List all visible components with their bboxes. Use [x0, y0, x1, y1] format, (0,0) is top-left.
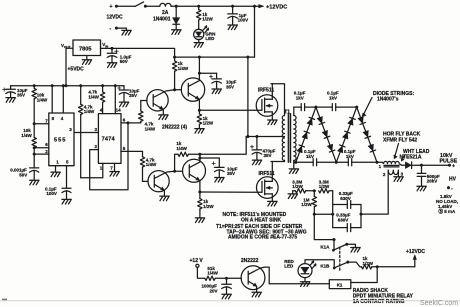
wire 555 pin8 riser	[51, 86, 53, 113]
node Q1 collector Q2 base	[173, 88, 176, 91]
resistor 1k 1/2W upper	[195, 110, 214, 133]
node rail-1N4001	[175, 5, 178, 8]
svg-text:35V: 35V	[17, 92, 25, 97]
transistor Q1 2N2222	[147, 90, 175, 120]
svg-text:1/4W: 1/4W	[178, 66, 189, 71]
label WHT LEAD NTE521A	[400, 149, 430, 161]
wire HV output	[422, 164, 456, 170]
wire 555 pin7	[34, 123, 49, 125]
wire 7474 pin6 out	[121, 122, 141, 124]
fuse 2A	[160, 3, 171, 16]
svg-text:+: +	[452, 164, 455, 170]
resistor 1k 1/2W relay	[362, 256, 415, 269]
svg-text:1/4W: 1/4W	[176, 146, 187, 151]
IC U3 7474	[95, 108, 126, 171]
svg-text:AMIDON E CORE #EA-77-375: AMIDON E CORE #EA-77-375	[228, 235, 297, 241]
node pin6 junction	[33, 146, 36, 149]
diode string D falling	[357, 107, 377, 162]
wire +5V rail	[11, 85, 124, 87]
svg-text:1/2W: 1/2W	[203, 121, 214, 126]
resistor 3.3M 1/2W first	[292, 179, 314, 193]
wire 1M to cap block	[314, 213, 332, 215]
ground 7474 pin7	[110, 163, 119, 176]
svg-text:1/2W: 1/2W	[202, 17, 213, 22]
svg-text:K1B: K1B	[320, 263, 330, 268]
node rail-down feed	[253, 5, 256, 8]
wire lower drain to T1	[271, 160, 285, 161]
node Q2 collector cap junction	[198, 72, 201, 75]
svg-text:35V: 35V	[129, 93, 137, 98]
svg-text:630V: 630V	[338, 217, 349, 222]
svg-text:1/4W: 1/4W	[146, 162, 157, 167]
svg-text:HV: HV	[449, 176, 457, 182]
node Vin cap junction	[111, 47, 114, 50]
label HOR FLY BACK XFMR FLY 542	[383, 132, 421, 159]
wire feedback loop Qbar to D	[90, 123, 128, 190]
wire bottom page rule	[0, 300, 460, 302]
capacitor 0.33uF 630V second	[333, 212, 361, 231]
label 10kV PULSE	[440, 153, 458, 165]
wire gate line lower	[200, 191, 254, 193]
svg-text:14: 14	[116, 108, 122, 113]
wire 555 pin2	[34, 153, 49, 155]
svg-text:SeekIC.com: SeekIC.com	[420, 300, 458, 307]
svg-text:7474: 7474	[102, 137, 116, 143]
svg-text:1A CONTACT RATING: 1A CONTACT RATING	[353, 299, 405, 305]
label NOTE IRF511s mounted	[223, 212, 287, 223]
node y57-1k	[173, 56, 176, 59]
label RADIO SHACK relay	[353, 288, 414, 305]
wire 7805 Vout to +5V rail	[66, 48, 84, 85]
svg-text:K1: K1	[337, 283, 343, 288]
transistor Q5 2N2222	[241, 258, 269, 297]
diode string A rising	[296, 107, 316, 162]
svg-text:35V: 35V	[264, 153, 272, 158]
capacitor 10uF 35V upper	[199, 73, 236, 93]
wire fuse to diode node	[171, 5, 176, 7]
resistor 10k 1/4W upper	[32, 86, 48, 124]
wire rail segment	[199, 5, 233, 7]
wire 555 pin3 to 7474 pin3	[74, 132, 98, 134]
node +12V battery plus terminal	[110, 4, 118, 10]
wire relay dashed link	[339, 247, 341, 272]
wire to Q2 base	[175, 89, 182, 91]
relay coil K1	[329, 280, 351, 289]
capacitor 1uF 100V	[228, 6, 248, 29]
node rail pin14	[114, 84, 117, 87]
label output voltages	[436, 194, 458, 215]
svg-text:1/4W: 1/4W	[21, 133, 32, 138]
wire 7805 Vin	[101, 47, 113, 49]
svg-text:2N2222: 2N2222	[241, 258, 259, 264]
node rail 4.7kA	[79, 84, 82, 87]
wire 1M node to K1A	[314, 214, 334, 249]
node centre tap feed	[247, 135, 250, 138]
node +12VDC arrow	[259, 4, 288, 10]
capacitor 1000uF 20V	[202, 278, 232, 299]
wire +12V feed down from rail	[254, 6, 256, 57]
svg-text:1/4W: 1/4W	[37, 97, 48, 102]
resistor 1k 1/2W for green LED	[197, 6, 214, 21]
IC U2 555	[45, 113, 74, 166]
node 1M bottom	[313, 213, 316, 216]
capacitor 0.1uF 100V pin5	[45, 166, 71, 204]
switch K1A	[320, 243, 360, 252]
node lower cap junction	[199, 157, 202, 160]
svg-text:1/2W: 1/2W	[292, 184, 303, 189]
wire 555 pin6	[34, 147, 49, 149]
node rail-1uF	[231, 5, 234, 8]
regulator U1 7805	[61, 40, 109, 56]
svg-text:2A: 2A	[162, 10, 169, 16]
svg-text:1/4W: 1/4W	[88, 94, 99, 99]
node CW peak2	[355, 106, 358, 109]
svg-text:1/4W: 1/4W	[145, 126, 156, 131]
wire relay coil feed	[351, 267, 377, 283]
svg-text:1N4001: 1N4001	[153, 16, 171, 22]
switch S1 power	[135, 2, 147, 8]
svg-text:1/2W: 1/2W	[319, 184, 330, 189]
switch K1B	[320, 261, 361, 269]
resistor 1k 1/4W lower	[175, 141, 200, 171]
capacitor 470uF 35V	[250, 137, 275, 165]
node Q3 collector Q4 base	[173, 170, 176, 173]
inductor flyback secondary	[383, 170, 404, 181]
wire 555 pin4 riser	[62, 86, 64, 113]
node base junction	[225, 277, 228, 280]
svg-text:+12 V: +12 V	[190, 258, 204, 264]
wire CW top line right	[336, 106, 357, 108]
svg-text:K1A: K1A	[320, 244, 330, 249]
wire 7474 pin5 out	[121, 150, 143, 152]
node HV output junction	[420, 164, 423, 167]
capacitor 10uF 35V rail left	[3, 86, 28, 103]
capacitor 0.33uF 630V first	[333, 191, 361, 208]
node rail-1k	[197, 5, 200, 8]
label minus	[447, 186, 453, 192]
svg-text:1/4W: 1/4W	[207, 271, 218, 276]
node cap block right	[360, 213, 363, 216]
wire to Q1 base	[141, 100, 147, 102]
capacitor 0.001uF 50V	[10, 154, 39, 185]
node 470uF junction	[256, 135, 259, 138]
svg-text:35V: 35V	[226, 84, 234, 89]
label T1 winding note	[216, 224, 307, 241]
node Q4 collector resistor	[199, 153, 202, 156]
resistor 4.7k 1/4W Q1 base	[139, 101, 156, 132]
svg-text:+12VDC: +12VDC	[266, 4, 287, 10]
svg-text:1kV: 1kV	[296, 95, 304, 100]
node Q2 emitter	[198, 109, 201, 112]
capacitor 0.1uF 1kV bottom1	[304, 149, 317, 166]
wire to Q5 base	[227, 277, 242, 279]
node pin7 junction	[33, 122, 36, 125]
wire secondary bottom lead with ground	[289, 160, 298, 173]
resistor 1k 1/2W lower	[195, 192, 214, 223]
svg-text:+12VDC: +12VDC	[406, 249, 425, 255]
label DIODE STRINGS 1N4007	[362, 91, 414, 117]
svg-text:100V: 100V	[238, 18, 249, 23]
svg-text:100V: 100V	[46, 191, 57, 196]
node rail 7805 join	[65, 84, 68, 87]
resistor 3.3M 1/2W second	[319, 179, 333, 193]
transistor Q4 2N2222	[183, 154, 206, 192]
svg-text:20kV: 20kV	[427, 179, 438, 184]
svg-text:ON A HEAT SINK: ON A HEAT SINK	[241, 217, 281, 223]
wire rail segment	[176, 5, 199, 7]
ground 7805	[82, 56, 91, 65]
node pin6 feedback	[127, 122, 130, 125]
node CW foot2	[335, 161, 338, 164]
wire +12VDC arrow relay	[406, 249, 425, 267]
resistor 4.7k 1/4W pullup A	[79, 86, 95, 178]
transformer T1	[282, 110, 296, 163]
svg-text:35V: 35V	[227, 171, 235, 176]
svg-text:1N4007's: 1N4007's	[377, 97, 399, 103]
wire lower 1k feed corner	[200, 137, 246, 155]
wire loop to 7474 bottom pin1	[81, 163, 103, 177]
wire rail to arrow	[255, 5, 260, 7]
svg-text:LED: LED	[205, 36, 215, 41]
node Q4 emitter	[199, 191, 202, 194]
capacitor 10uF 35V rail right	[118, 86, 140, 107]
resistor 1k 1/4W upper	[172, 57, 188, 90]
wire CW top line mid	[305, 106, 333, 108]
resistor 1M 1/2W	[301, 191, 316, 214]
diode D2 NTE521A	[402, 162, 422, 169]
capacitor 500pF 20kV	[417, 165, 440, 191]
capacitor 0.1uF 1kV top1	[294, 91, 306, 111]
capacitor 10uF 35V lower	[200, 158, 238, 182]
svg-text:1/2W: 1/2W	[203, 204, 214, 209]
wire secondary top lead	[293, 107, 295, 115]
LED red RED	[284, 259, 316, 287]
node CW foot3	[376, 161, 379, 164]
node rail pin4	[62, 84, 65, 87]
wire Vin to corner	[112, 48, 175, 57]
mosfet U4 IRF511 upper	[254, 84, 278, 125]
node +12V terminal bottom	[190, 258, 204, 268]
svg-text:Ⓢ 5 mA: Ⓢ 5 mA	[439, 208, 457, 215]
node cap block left	[331, 213, 334, 216]
wire cap block left vertical	[332, 191, 334, 228]
wire junction down	[33, 148, 35, 154]
resistor 4.7k 1/4W Q3 base	[140, 151, 157, 181]
node y57-T1 centre feed	[247, 56, 250, 59]
wire upper drain to T1	[271, 84, 285, 116]
svg-text:50V: 50V	[19, 172, 27, 177]
svg-text:1/2W: 1/2W	[363, 261, 374, 266]
svg-text:50V: 50V	[120, 59, 128, 64]
mosfet U5 IRF511 lower	[254, 162, 278, 207]
transistor Q2 2N2222	[181, 57, 204, 110]
wire centre tap horizontal	[246, 136, 284, 138]
node relay feed	[376, 265, 379, 268]
capacitor 0.1uF 1kV bottom2	[344, 149, 356, 166]
node rail-10k	[33, 84, 36, 87]
wire Q5 collector to relay	[269, 283, 329, 285]
wire flyback secondary return	[361, 170, 388, 214]
node minus terminal with ground	[110, 26, 132, 35]
wire cap block right vertical	[360, 205, 362, 228]
svg-text:1kV: 1kV	[346, 154, 354, 159]
svg-text:PULSE: PULSE	[440, 158, 458, 164]
svg-text:7805: 7805	[79, 47, 91, 53]
wire plus terminal to switch	[117, 5, 135, 7]
diode string B falling	[316, 107, 336, 162]
svg-text:630V: 630V	[340, 196, 351, 201]
ground 555 pin1	[51, 166, 60, 177]
wire LED to K1B	[305, 260, 334, 267]
wire 7474 pin14 riser	[114, 86, 116, 114]
inductor flyback primary	[377, 161, 402, 169]
wire CW bottom line	[294, 161, 377, 163]
svg-text:LED: LED	[284, 264, 294, 269]
diode D1 1N4001	[153, 6, 181, 34]
ground 3.3M divider left	[288, 191, 297, 199]
svg-text:555: 555	[54, 138, 66, 144]
svg-text:12VDC: 12VDC	[107, 15, 124, 21]
LED green GRN	[194, 20, 216, 47]
diode string C rising	[336, 107, 356, 162]
wire gate line upper	[199, 109, 254, 111]
node y57-Q2 collector	[198, 56, 201, 59]
wire switch to fuse	[146, 5, 160, 7]
node CW peak1	[315, 106, 318, 109]
svg-text:1kV: 1kV	[306, 154, 314, 159]
node rail 4.7kB	[101, 84, 104, 87]
wire +12V distribution line y57	[175, 56, 255, 58]
svg-text:XFMR FLY 542: XFMR FLY 542	[383, 137, 417, 143]
resistor 51k 1/4W	[197, 266, 226, 281]
wire T1 centre tap feed	[247, 57, 249, 136]
wire to Q4 base	[175, 170, 183, 172]
node divider mid	[313, 189, 316, 192]
svg-text:2N2222 (4): 2N2222 (4)	[162, 125, 187, 131]
resistor 4.7k 1/4W pullup B	[88, 86, 104, 114]
node rail pin8	[51, 84, 54, 87]
capacitor 0.1uF 1kV top2	[327, 91, 339, 111]
node page corner mark	[2, 299, 7, 301]
svg-text:+: +	[110, 4, 113, 10]
wire to Q3 base	[143, 180, 149, 182]
capacitor 1.0uF 50V	[107, 48, 131, 67]
node CW foot1	[294, 161, 297, 164]
svg-text:1/2W: 1/2W	[301, 202, 312, 207]
svg-text:20V: 20V	[210, 289, 218, 294]
transistor Q3 2N2222	[148, 171, 175, 201]
svg-text:1kV: 1kV	[329, 95, 337, 100]
node pin2 junction	[33, 153, 36, 156]
svg-text:+5VDC: +5VDC	[68, 66, 85, 72]
svg-text:1/4W: 1/4W	[84, 109, 95, 114]
wire rail segment	[233, 5, 255, 7]
resistor 10k 1/4W lower	[21, 124, 36, 148]
wire CW top line left	[294, 106, 301, 108]
